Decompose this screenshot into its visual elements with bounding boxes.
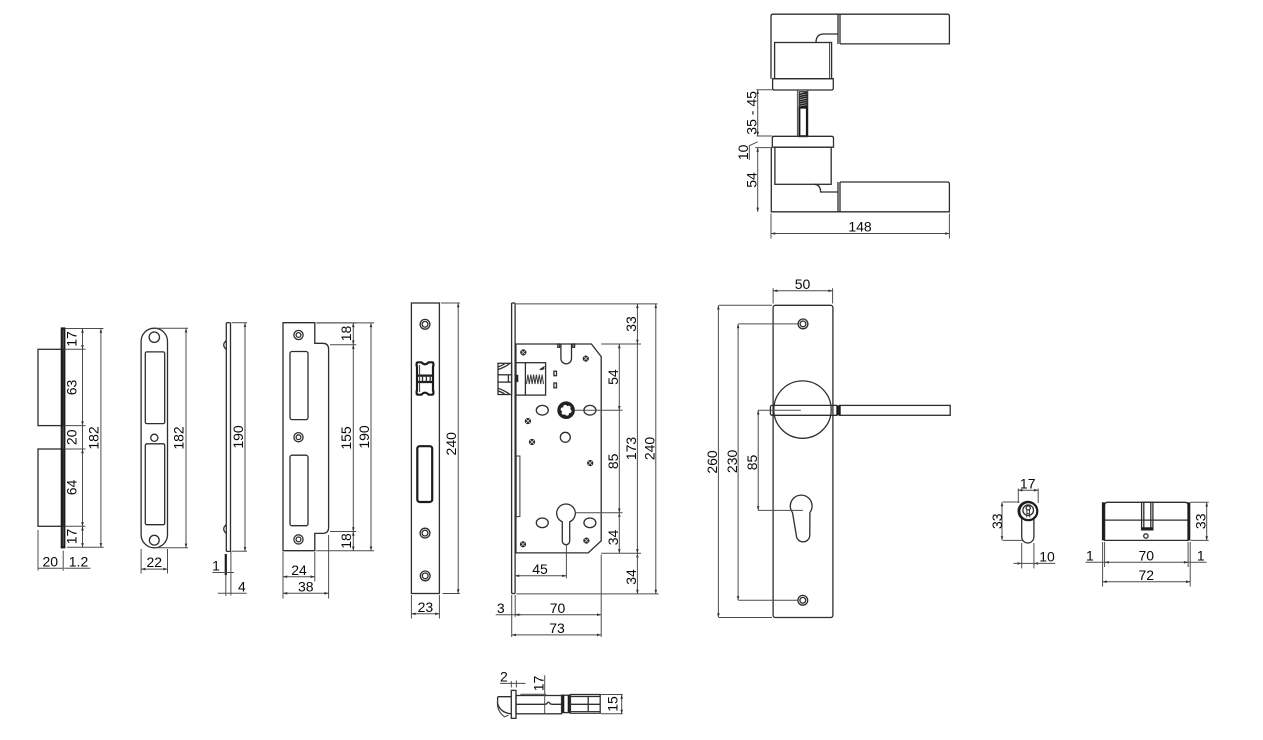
strike plate hole middle	[151, 434, 158, 441]
case screw 6	[520, 541, 526, 547]
upper lever handle outline	[771, 14, 949, 79]
svg-text:85: 85	[605, 453, 621, 469]
dimension 38	[283, 535, 329, 599]
svg-text:1: 1	[1197, 548, 1205, 564]
svg-text:240: 240	[642, 437, 658, 461]
lower rose plate	[772, 136, 833, 147]
svg-text:17: 17	[1020, 475, 1036, 491]
spindle square rod	[799, 108, 807, 137]
dimension extension lines backplate left	[719, 305, 803, 617]
strike box side view - bent tab lower	[38, 449, 63, 526]
latch stem through faceplate	[515, 375, 518, 382]
strike plate front view - plate outline	[141, 328, 167, 548]
dimension 18 top	[316, 323, 356, 345]
dimension 70	[515, 613, 601, 616]
dimension 1.2	[64, 567, 90, 569]
dimension 240 faceplate	[441, 303, 460, 594]
svg-text:173: 173	[623, 437, 639, 461]
svg-text:34: 34	[623, 569, 639, 585]
upper handle neck block	[775, 43, 832, 79]
lower handle neck block	[775, 147, 831, 184]
svg-text:182: 182	[85, 426, 101, 450]
dimension 230 line	[737, 324, 740, 600]
case screw 1	[520, 349, 526, 355]
svg-text:70: 70	[550, 600, 566, 616]
lock faceplate edge-on strip	[512, 303, 515, 594]
svg-text:230: 230	[724, 450, 740, 474]
svg-text:17: 17	[530, 676, 546, 692]
lock dims extension lines right	[516, 304, 659, 594]
svg-text:34: 34	[605, 530, 621, 546]
angled strike plate outline with lip	[283, 323, 329, 551]
dimension chain line	[81, 329, 84, 548]
dimension 20 bottom	[38, 530, 63, 571]
round hole below follower	[560, 432, 570, 442]
lever grip front view	[770, 405, 950, 415]
dimension 22	[141, 549, 167, 574]
dimension 148	[771, 214, 949, 239]
dimension 1 thickness	[213, 551, 235, 595]
dimension 33 end view	[1001, 502, 1022, 540]
svg-text:63: 63	[64, 380, 80, 396]
dimension 182 line	[100, 329, 103, 548]
svg-text:10: 10	[1039, 549, 1055, 565]
dimension 182 of front plate	[156, 328, 188, 548]
dimension chain 17/63/20/64/17 extension lines	[65, 329, 104, 548]
dimension 45 backset	[515, 545, 566, 579]
lower lever handle outline	[771, 148, 949, 212]
svg-text:64: 64	[64, 480, 80, 496]
svg-text:20: 20	[64, 429, 80, 445]
cylinder cam notch	[1142, 502, 1153, 530]
backplate screw bottom	[798, 595, 808, 605]
dimension 18 bottom	[316, 532, 374, 551]
svg-text:260: 260	[704, 450, 720, 474]
dimension 155	[330, 345, 356, 532]
svg-text:17: 17	[64, 529, 80, 545]
backplate outline	[773, 305, 833, 617]
case screw 2	[583, 356, 589, 362]
cylinder end cap left	[1102, 502, 1105, 540]
rose circle	[774, 381, 831, 438]
latch bolt front view	[416, 362, 434, 394]
flat strike plate edge-on profile	[224, 323, 231, 552]
svg-text:85: 85	[744, 455, 760, 471]
faceplate screw top	[420, 319, 430, 329]
strike plate screw hole top	[149, 332, 159, 342]
svg-text:190: 190	[230, 425, 246, 449]
faceplate screw middle	[420, 528, 430, 538]
dimension 17 cylinder	[1018, 489, 1038, 504]
svg-text:182: 182	[171, 426, 187, 450]
angled strike slot lower	[290, 455, 308, 526]
lock case outline	[516, 344, 601, 553]
svg-text:17: 17	[64, 331, 80, 347]
latch body	[516, 696, 562, 714]
svg-text:72: 72	[1139, 567, 1155, 583]
svg-text:18: 18	[338, 533, 354, 549]
cylinder fixing hole	[1144, 534, 1148, 538]
dimension 10 rose thickness	[749, 142, 772, 160]
angled strike screw middle	[294, 433, 303, 442]
euro cylinder hole in backplate	[790, 495, 812, 542]
svg-text:38: 38	[298, 578, 314, 594]
svg-text:15: 15	[605, 696, 621, 712]
svg-text:1: 1	[212, 558, 220, 574]
spindle spring	[797, 90, 807, 136]
dimension 190 of flat strike	[232, 323, 247, 552]
svg-text:10: 10	[735, 144, 751, 160]
bottom extension lines lock	[512, 555, 602, 638]
dimension 35-45 spindle	[756, 90, 772, 136]
svg-text:1.2: 1.2	[69, 553, 89, 569]
svg-text:54: 54	[605, 369, 621, 385]
backplate screw top	[798, 319, 808, 329]
svg-text:33: 33	[989, 513, 1005, 529]
svg-text:33: 33	[1193, 513, 1209, 529]
svg-text:18: 18	[338, 326, 354, 342]
spindle follower hub	[557, 401, 575, 419]
latch tail block with spring	[516, 363, 546, 395]
svg-text:3: 3	[497, 600, 505, 616]
strike plate slot lower	[145, 444, 164, 525]
dimension 85 line backplate	[757, 410, 760, 510]
dimension 54 handle	[756, 148, 759, 212]
svg-text:23: 23	[418, 599, 434, 615]
dimension 15 latch tail	[601, 695, 623, 714]
angled strike screw top	[294, 330, 303, 339]
cylinder profile end view body	[1018, 501, 1037, 543]
svg-text:148: 148	[848, 219, 872, 235]
svg-text:190: 190	[356, 425, 372, 449]
lock case top notch	[558, 344, 575, 364]
dimension 72	[1103, 580, 1191, 583]
dimension 190 of angled strike	[316, 323, 374, 551]
svg-text:240: 240	[443, 432, 459, 456]
cylinder body side view	[1105, 502, 1189, 540]
dimension 50	[773, 288, 833, 303]
angled strike screw bottom	[294, 535, 303, 544]
svg-text:22: 22	[147, 554, 163, 570]
cylinder end cap right	[1187, 502, 1190, 540]
deadbolt slot front view	[417, 446, 432, 502]
svg-text:2: 2	[500, 669, 508, 685]
case screw 5	[587, 460, 593, 466]
latch bolt head side view	[498, 363, 512, 394]
dimension 17 latch	[520, 675, 546, 713]
upper rose plate	[773, 79, 834, 90]
faceplate front view outline	[411, 303, 439, 594]
dimension line 54/85/34	[618, 344, 621, 553]
strike box side view - plate (edge-on)	[62, 329, 65, 548]
dimension 10 cylinder	[1014, 543, 1056, 568]
svg-text:4: 4	[238, 578, 246, 594]
faceplate screw bottom	[420, 571, 430, 581]
case screw 4	[529, 439, 535, 445]
latch flange faceplate section	[511, 690, 516, 718]
oval hole left of follower	[536, 405, 548, 415]
deadbolt guide slot at faceplate	[516, 456, 520, 517]
dimension 24	[283, 552, 315, 599]
oval hole right of cylinder	[584, 518, 596, 528]
dimension 23	[411, 595, 439, 619]
case screw 7	[583, 538, 589, 544]
svg-text:35 - 45: 35 - 45	[743, 91, 759, 135]
svg-text:45: 45	[532, 561, 548, 577]
svg-text:155: 155	[338, 426, 354, 450]
cylinder key plug	[1023, 505, 1034, 517]
dimension line 33/173/34	[636, 304, 639, 594]
latch nose with bevel	[497, 697, 511, 717]
latch rear section	[570, 695, 600, 714]
strike plate slot upper	[145, 352, 164, 424]
svg-text:33: 33	[623, 316, 639, 332]
svg-text:24: 24	[291, 562, 307, 578]
dimension 2 flange	[500, 681, 525, 688]
strike box side view - bent tab upper	[38, 349, 63, 425]
angled strike slot upper	[290, 352, 308, 420]
dimension line 240 lock	[655, 304, 658, 594]
case screw 3	[525, 418, 531, 424]
oval hole right of follower	[584, 405, 596, 415]
svg-text:73: 73	[549, 620, 565, 636]
dimension 33 side view	[1191, 502, 1209, 540]
dimension 4 offset	[218, 575, 247, 596]
dimension 260 line	[717, 305, 720, 617]
dimension 70 cylinder	[1086, 542, 1207, 587]
guide slot small rect lower	[554, 383, 557, 388]
svg-text:50: 50	[795, 276, 811, 292]
euro cylinder hole in lock case	[557, 504, 576, 545]
dimension 73	[512, 634, 602, 637]
svg-text:54: 54	[743, 172, 759, 188]
dimension 3 faceplate thickness	[496, 614, 521, 616]
latch guide block	[562, 695, 571, 712]
oval hole left of cylinder	[536, 518, 548, 528]
cylinder plug ring	[1019, 502, 1037, 520]
guide slot small rect upper	[554, 371, 557, 376]
strike plate screw hole bottom	[149, 535, 159, 545]
svg-text:20: 20	[43, 553, 59, 569]
svg-text:70: 70	[1139, 548, 1155, 564]
svg-text:1: 1	[1086, 548, 1094, 564]
